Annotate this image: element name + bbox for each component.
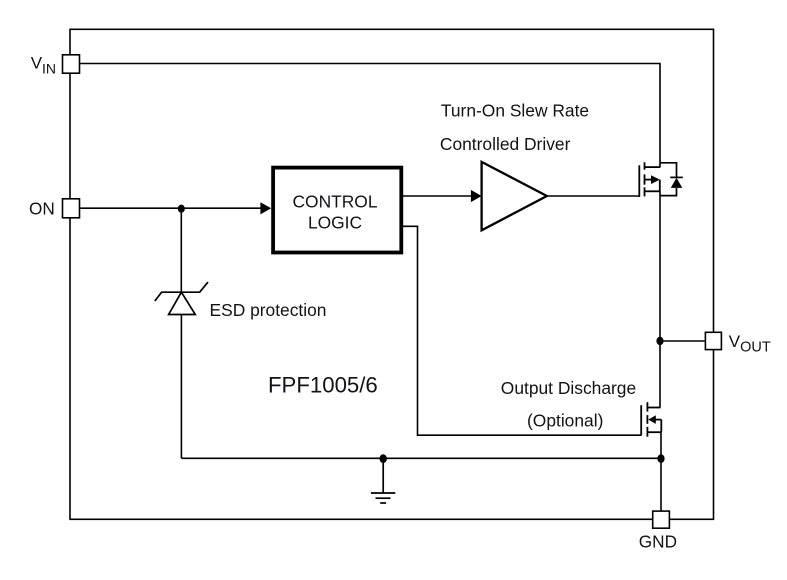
block U1 CONTROL LOGIC — [273, 168, 401, 253]
svg-text:(Optional): (Optional) — [527, 410, 603, 430]
transistor Q2 NMOS discharge — [641, 402, 661, 437]
zener diode D1 ESD cathode bar — [155, 282, 208, 301]
wire control logic to driver — [403, 195, 472, 197]
transistor Q1 PMOS pass — [639, 162, 660, 197]
svg-text:GND: GND — [639, 532, 677, 552]
pin VIN — [63, 55, 80, 73]
pin ON — [63, 199, 80, 218]
wire VOUT node to VOUT pin — [660, 340, 705, 342]
pin VOUT — [705, 332, 721, 349]
wire VOUT node to NMOS drain — [659, 341, 661, 408]
svg-text:Turn-On Slew Rate: Turn-On Slew Rate — [441, 101, 589, 121]
arrowhead into driver — [471, 190, 482, 202]
ground rail wire — [181, 457, 661, 459]
svg-text:ON: ON — [29, 199, 55, 219]
node ON junction — [178, 205, 185, 213]
body diode of Q1 — [660, 163, 683, 196]
svg-text:Output Discharge: Output Discharge — [501, 378, 636, 398]
pin GND — [653, 511, 670, 528]
wire ON junction to ESD diode — [180, 208, 182, 292]
wire control logic to NMOS gate — [403, 226, 641, 435]
op-amp driver triangle — [482, 162, 547, 230]
wire NMOS source to ground rail — [660, 432, 662, 458]
wire PMOS source to VOUT node — [659, 191, 661, 341]
svg-text:CONTROL: CONTROL — [292, 191, 377, 211]
arrowhead into control logic — [260, 202, 271, 214]
zener diode D1 ESD anode triangle — [169, 292, 196, 314]
svg-text:Controlled Driver: Controlled Driver — [440, 134, 571, 154]
node ground rail junction — [657, 454, 664, 463]
svg-text:FPF1005/6: FPF1005/6 — [268, 373, 378, 398]
wire VIN rail to PMOS drain — [80, 64, 661, 168]
wire ground junction to GND pin — [660, 458, 662, 511]
wire ON to control logic — [80, 207, 263, 209]
wire driver to PMOS gate — [547, 195, 639, 197]
svg-text:ESD protection: ESD protection — [210, 300, 327, 320]
wire ESD diode to ground rail — [180, 315, 182, 459]
IC boundary — [70, 29, 714, 519]
node ground symbol junction — [380, 454, 387, 463]
ground symbol — [371, 458, 395, 503]
node VOUT junction — [656, 337, 663, 345]
svg-text:LOGIC: LOGIC — [308, 213, 362, 233]
